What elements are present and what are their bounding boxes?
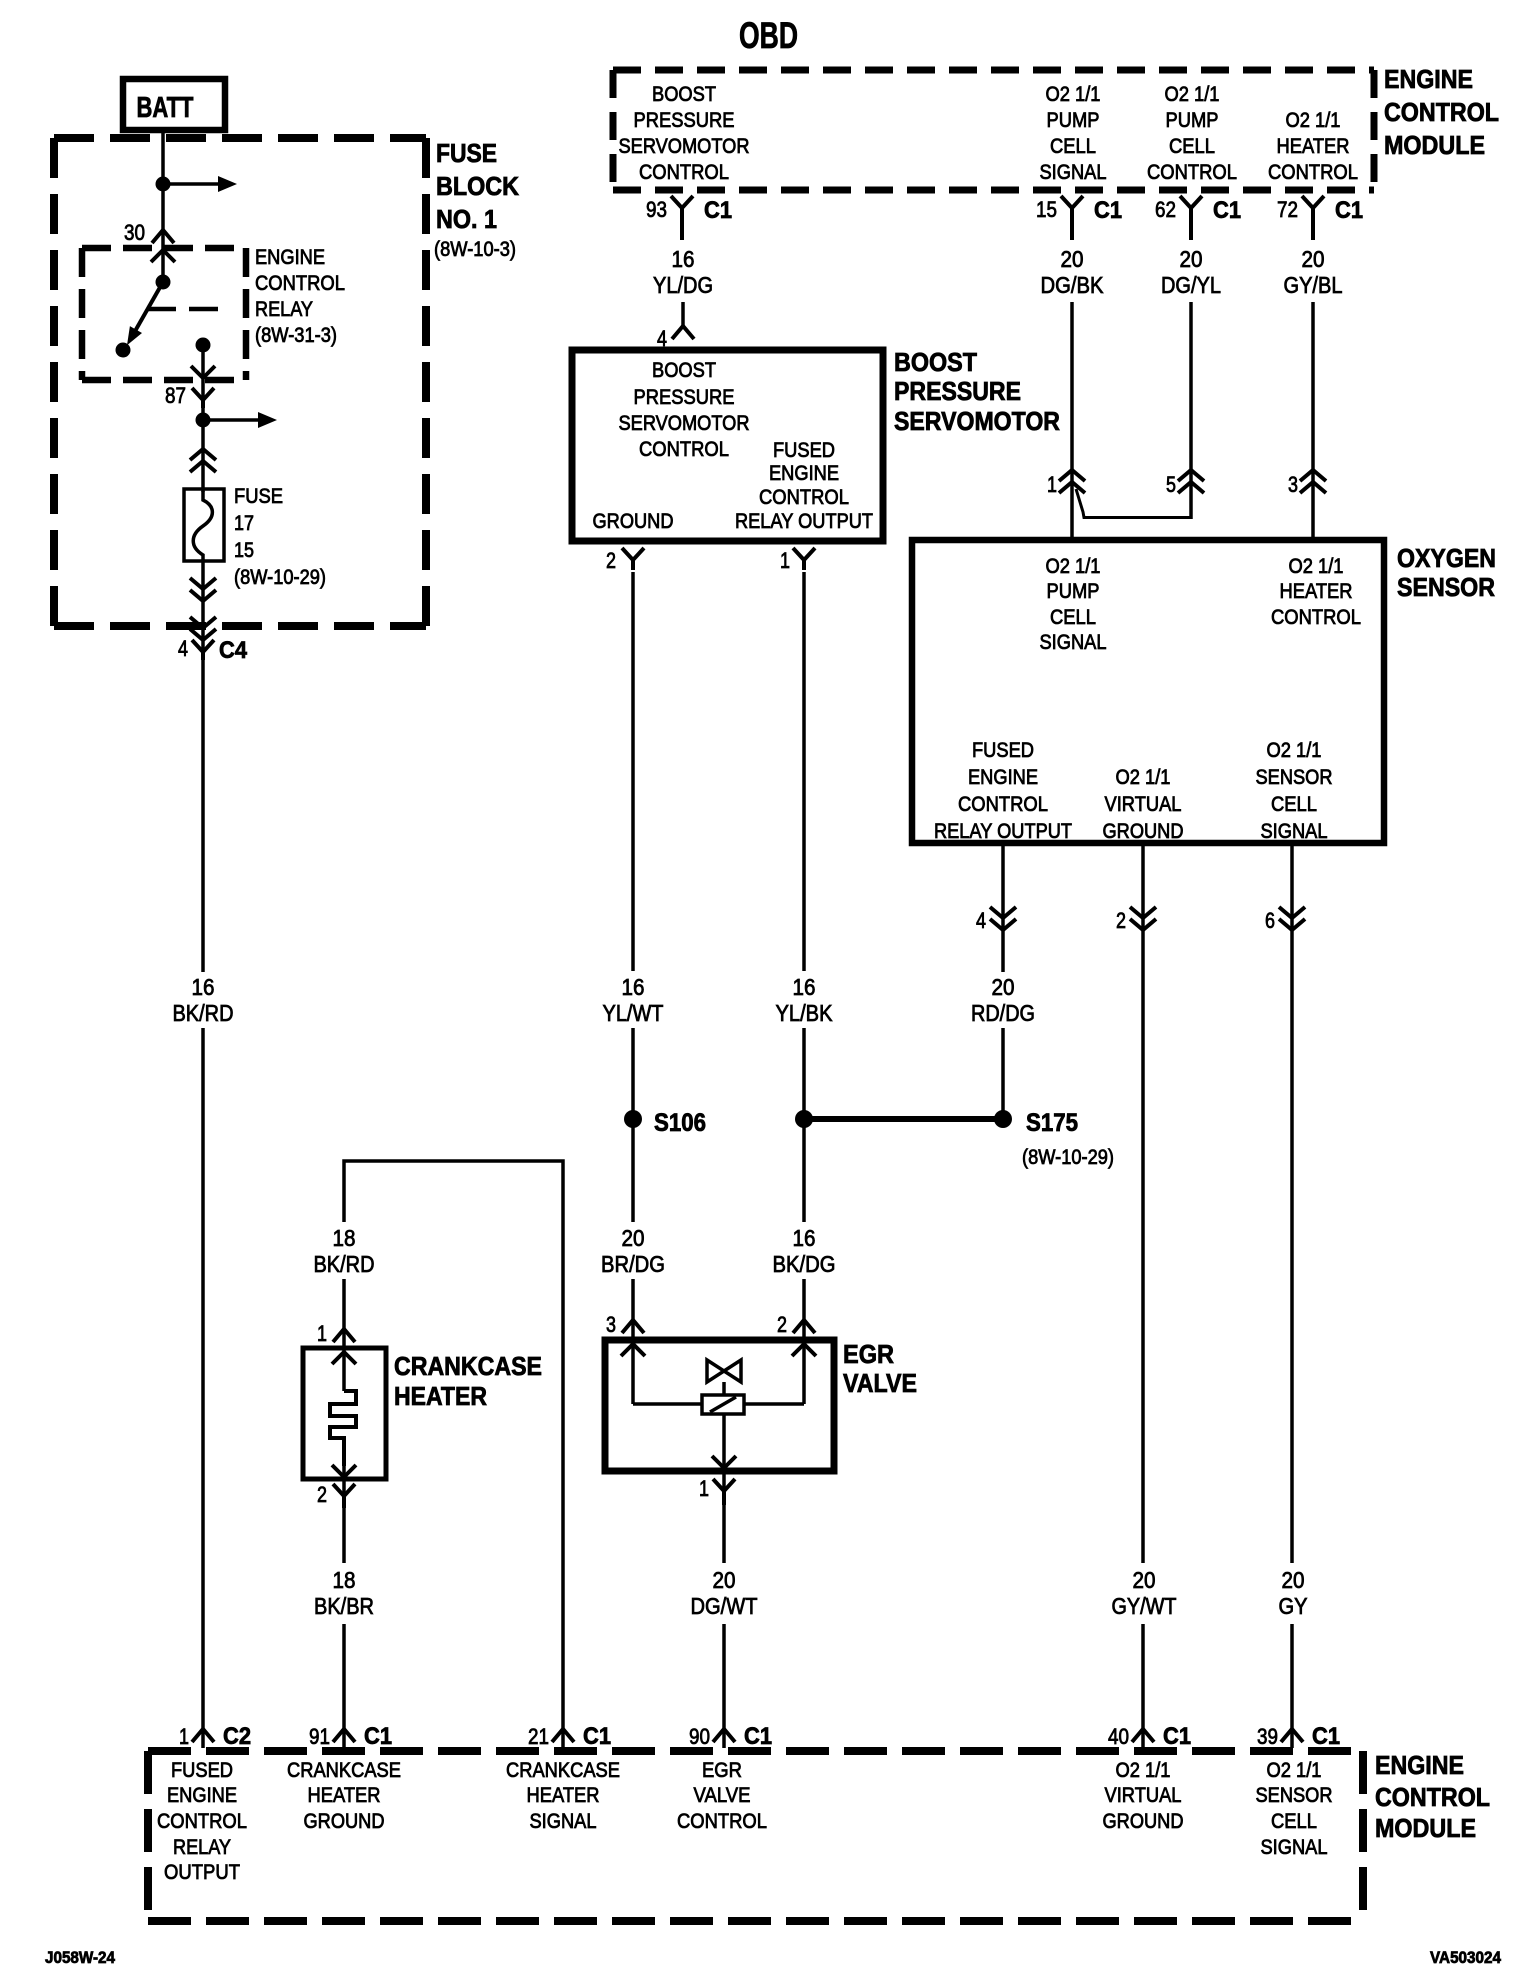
svg-text:S106: S106 xyxy=(654,1109,706,1137)
svg-text:BOOST: BOOST xyxy=(652,359,716,382)
connector pin 91 C1 at ECM xyxy=(333,1729,355,1742)
splice S175 xyxy=(994,1109,1114,1169)
connector pin 3 EGR xyxy=(606,1312,644,1337)
connector pin 72 C1 xyxy=(1277,196,1363,240)
svg-text:2: 2 xyxy=(606,548,616,573)
svg-text:ENGINE: ENGINE xyxy=(1375,1750,1464,1780)
svg-text:MODULE: MODULE xyxy=(1375,1813,1476,1843)
svg-text:BK/DG: BK/DG xyxy=(773,1251,836,1277)
svg-text:SIGNAL: SIGNAL xyxy=(530,1810,597,1833)
svg-text:16: 16 xyxy=(793,974,816,1000)
svg-text:CELL: CELL xyxy=(1271,1810,1317,1833)
svg-text:20: 20 xyxy=(622,1225,645,1251)
wire fuse to C4 xyxy=(201,561,205,652)
svg-text:DG/YL: DG/YL xyxy=(1161,272,1221,298)
svg-text:SIGNAL: SIGNAL xyxy=(1261,820,1328,843)
connector pin 1 EGR xyxy=(699,1476,735,1505)
EGR internal wiring xyxy=(633,1402,804,1406)
svg-text:HEATER: HEATER xyxy=(527,1784,600,1807)
svg-text:20: 20 xyxy=(1282,1567,1305,1593)
svg-text:BOOST: BOOST xyxy=(894,347,977,377)
svg-text:RELAY OUTPUT: RELAY OUTPUT xyxy=(735,510,873,533)
svg-text:5: 5 xyxy=(1166,472,1176,497)
svg-text:CONTROL: CONTROL xyxy=(1147,161,1237,184)
relay switch arm xyxy=(127,282,163,345)
svg-text:16: 16 xyxy=(192,974,215,1000)
svg-text:RELAY OUTPUT: RELAY OUTPUT xyxy=(934,820,1072,843)
EGR outlet wire xyxy=(722,1414,726,1468)
svg-text:GROUND: GROUND xyxy=(1103,820,1184,843)
svg-text:CONTROL: CONTROL xyxy=(677,1810,767,1833)
svg-text:CONTROL: CONTROL xyxy=(639,161,729,184)
svg-text:C1: C1 xyxy=(1163,1723,1191,1750)
connector pin 2 servo xyxy=(606,548,644,573)
heater exit barb xyxy=(332,1465,356,1480)
svg-text:RELAY: RELAY xyxy=(173,1836,231,1859)
O2 pin 1 connector xyxy=(1047,470,1085,497)
svg-text:(8W-31-3): (8W-31-3) xyxy=(255,324,337,347)
svg-text:1: 1 xyxy=(179,1724,189,1749)
wire BK/RD to heater pin 1 xyxy=(342,1279,346,1348)
svg-text:CONTROL: CONTROL xyxy=(958,793,1048,816)
svg-text:62: 62 xyxy=(1155,197,1176,222)
label OXYGEN SENSOR (title) xyxy=(1397,543,1496,602)
wire BATT to junction xyxy=(161,130,165,184)
svg-text:GROUND: GROUND xyxy=(304,1810,385,1833)
svg-text:OBD: OBD xyxy=(739,15,798,56)
O2 pin 6 connector xyxy=(1265,907,1305,933)
svg-text:BR/DG: BR/DG xyxy=(601,1251,665,1277)
svg-text:O2 1/1: O2 1/1 xyxy=(1165,83,1220,106)
ECM input crankcase heater ground xyxy=(287,1759,401,1833)
fuse output connector xyxy=(190,578,216,601)
svg-text:SERVOMOTOR: SERVOMOTOR xyxy=(619,135,750,158)
connector pin 2 heater xyxy=(317,1482,355,1508)
svg-text:4: 4 xyxy=(976,908,986,933)
svg-text:BOOST: BOOST xyxy=(652,83,716,106)
ECM input O2 sensor cell signal xyxy=(1256,1759,1333,1859)
svg-text:MODULE: MODULE xyxy=(1384,130,1485,160)
wire DG/BK down xyxy=(1070,302,1074,540)
svg-text:1: 1 xyxy=(317,1321,327,1346)
relay contact dot xyxy=(116,343,131,358)
svg-text:PRESSURE: PRESSURE xyxy=(894,376,1021,406)
svg-text:GROUND: GROUND xyxy=(593,510,674,533)
svg-text:3: 3 xyxy=(606,1312,616,1337)
svg-text:ENGINE: ENGINE xyxy=(1384,64,1473,94)
svg-text:(8W-10-3): (8W-10-3) xyxy=(434,238,516,261)
svg-text:O2 1/1: O2 1/1 xyxy=(1267,739,1322,762)
svg-text:C1: C1 xyxy=(1335,197,1363,224)
splice S106 xyxy=(624,1109,706,1137)
svg-text:FUSED: FUSED xyxy=(171,1759,233,1782)
svg-text:FUSE: FUSE xyxy=(436,138,497,168)
fuse element xyxy=(193,491,212,561)
svg-text:CELL: CELL xyxy=(1050,135,1096,158)
svg-text:87: 87 xyxy=(165,383,186,408)
svg-text:16: 16 xyxy=(622,974,645,1000)
svg-text:6: 6 xyxy=(1265,908,1275,933)
connector pin 21 C1 at ECM xyxy=(552,1729,574,1742)
wire label 18 BK/RD xyxy=(314,1225,375,1277)
svg-text:BK/BR: BK/BR xyxy=(314,1593,374,1619)
svg-text:ENGINE: ENGINE xyxy=(968,766,1038,789)
node junction below 87 xyxy=(196,413,211,428)
svg-text:PRESSURE: PRESSURE xyxy=(634,109,735,132)
svg-text:C1: C1 xyxy=(364,1723,392,1750)
svg-text:OXYGEN: OXYGEN xyxy=(1397,543,1496,573)
crankcase heater box xyxy=(303,1348,386,1479)
svg-text:DG/BK: DG/BK xyxy=(1041,272,1105,298)
ECM output O2 1/1 PUMP CELL SIGNAL xyxy=(1040,83,1107,184)
svg-text:30: 30 xyxy=(124,220,145,245)
relay pin 87 dot xyxy=(196,338,211,353)
svg-text:HEATER: HEATER xyxy=(308,1784,381,1807)
arrow feed right xyxy=(203,412,277,428)
wire DG/YL down xyxy=(1189,302,1193,519)
ECM output O2 1/1 PUMP CELL CONTROL xyxy=(1147,83,1237,184)
svg-text:O2 1/1: O2 1/1 xyxy=(1267,1759,1322,1782)
splice link to S175 xyxy=(804,1116,1003,1122)
svg-text:S175: S175 xyxy=(1026,1109,1078,1137)
svg-text:SIGNAL: SIGNAL xyxy=(1040,631,1107,654)
wire C4 down xyxy=(201,652,205,972)
svg-text:C1: C1 xyxy=(744,1723,772,1750)
svg-text:FUSE: FUSE xyxy=(234,485,283,508)
svg-text:3: 3 xyxy=(1288,472,1298,497)
svg-text:CRANKCASE: CRANKCASE xyxy=(394,1351,542,1381)
svg-text:20: 20 xyxy=(1180,246,1203,272)
wire jog pump cell control to pin 1 xyxy=(1076,489,1191,518)
svg-text:BK/RD: BK/RD xyxy=(173,1000,234,1026)
ECM input fused engine control relay output xyxy=(157,1759,247,1884)
svg-text:J058W-24: J058W-24 xyxy=(45,1948,115,1967)
wire label 20 BR/DG xyxy=(601,1225,665,1277)
svg-text:GY/WT: GY/WT xyxy=(1112,1593,1177,1619)
wire servo relay output down xyxy=(802,572,806,971)
relay pin 30 entry barb xyxy=(151,250,175,262)
label OBD xyxy=(739,15,798,56)
wire label 20 GY/BL xyxy=(1284,246,1343,298)
svg-text:(8W-10-29): (8W-10-29) xyxy=(234,566,326,589)
connector pin 15 C1 xyxy=(1036,196,1122,240)
fuse input connector xyxy=(190,449,216,472)
svg-text:GROUND: GROUND xyxy=(1103,1810,1184,1833)
svg-text:SENSOR: SENSOR xyxy=(1397,572,1495,602)
wire GY to ECM xyxy=(1290,1624,1294,1748)
connector pin 93 C1 xyxy=(646,196,732,240)
connector pin 1 C2 at ECM xyxy=(192,1729,214,1742)
wire S106 down xyxy=(631,1127,635,1222)
svg-text:PUMP: PUMP xyxy=(1047,580,1100,603)
O2 pin label heater control xyxy=(1271,555,1361,629)
wire label 20 DG/BK xyxy=(1041,246,1105,298)
svg-text:15: 15 xyxy=(234,539,254,562)
svg-text:VIRTUAL: VIRTUAL xyxy=(1105,1784,1182,1807)
svg-text:91: 91 xyxy=(309,1724,330,1749)
svg-text:20: 20 xyxy=(1133,1567,1156,1593)
label ENGINE CONTROL MODULE (bottom right) xyxy=(1375,1750,1490,1843)
EGR butterfly valve xyxy=(707,1360,741,1395)
label FUSE BLOCK NO. 1 xyxy=(434,138,519,261)
svg-text:CELL: CELL xyxy=(1050,606,1096,629)
wire YL/WT to S106 xyxy=(631,1028,635,1112)
svg-text:GY/BL: GY/BL xyxy=(1284,272,1343,298)
EGR valve box xyxy=(605,1340,834,1471)
label FUSE 17 15 xyxy=(234,485,326,589)
label CRANKCASE HEATER (title) xyxy=(394,1351,542,1411)
svg-text:SENSOR: SENSOR xyxy=(1256,1784,1333,1807)
pin 30 label xyxy=(124,220,145,245)
svg-text:17: 17 xyxy=(234,512,254,535)
svg-text:CONTROL: CONTROL xyxy=(759,486,849,509)
O2 pin 3 connector xyxy=(1288,470,1326,497)
EGR pin3 entry barb xyxy=(621,1341,645,1404)
svg-text:1: 1 xyxy=(699,1476,709,1501)
wire servo ground down xyxy=(631,572,635,971)
wire junction to relay pin 30 xyxy=(161,184,165,282)
svg-text:EGR: EGR xyxy=(702,1759,742,1782)
svg-text:C1: C1 xyxy=(583,1723,611,1750)
svg-text:OUTPUT: OUTPUT xyxy=(164,1861,240,1884)
wire O2 pin 6 down xyxy=(1290,843,1294,1563)
engine control relay dashed box xyxy=(82,248,246,380)
ECM output O2 1/1 HEATER CONTROL xyxy=(1268,109,1358,184)
svg-text:GY: GY xyxy=(1279,1593,1308,1619)
svg-text:RD/DG: RD/DG xyxy=(971,1000,1035,1026)
svg-text:CRANKCASE: CRANKCASE xyxy=(506,1759,620,1782)
fuse 17 box xyxy=(184,489,224,561)
svg-text:2: 2 xyxy=(777,1312,787,1337)
bottom connector labels row xyxy=(179,1723,1340,1750)
svg-text:O2 1/1: O2 1/1 xyxy=(1116,1759,1171,1782)
svg-text:PUMP: PUMP xyxy=(1047,109,1100,132)
wire label 16 YL/BK xyxy=(776,974,834,1026)
label BOOST PRESSURE SERVOMOTOR (title) xyxy=(894,347,1060,436)
svg-text:YL/WT: YL/WT xyxy=(603,1000,664,1026)
engine control module dashed box (bottom) xyxy=(148,1751,1363,1921)
engine control module dashed box (top) xyxy=(613,70,1374,190)
svg-text:C4: C4 xyxy=(219,637,248,664)
connector pin 30 xyxy=(152,230,174,243)
heater element xyxy=(330,1391,356,1466)
svg-text:CONTROL: CONTROL xyxy=(1384,97,1499,127)
svg-text:90: 90 xyxy=(689,1724,710,1749)
svg-text:CONTROL: CONTROL xyxy=(255,272,345,295)
svg-text:HEATER: HEATER xyxy=(1277,135,1350,158)
svg-text:YL/DG: YL/DG xyxy=(653,272,713,298)
oxygen sensor box xyxy=(912,540,1384,843)
ECM input egr valve control xyxy=(677,1759,767,1833)
svg-text:CONTROL: CONTROL xyxy=(1271,606,1361,629)
connector pin 62 C1 xyxy=(1155,196,1241,240)
servo pin label fused engine control relay output xyxy=(735,439,873,533)
ECM output BOOST PRESSURE SERVOMOTOR CONTROL xyxy=(619,83,750,184)
svg-text:21: 21 xyxy=(528,1724,549,1749)
svg-text:20: 20 xyxy=(1302,246,1325,272)
svg-text:18: 18 xyxy=(333,1225,356,1251)
relay actuation dashed line xyxy=(147,307,221,312)
EGR solenoid xyxy=(702,1395,744,1414)
svg-text:16: 16 xyxy=(672,246,695,272)
svg-text:VALVE: VALVE xyxy=(843,1368,917,1398)
wire BR/DG to EGR pin 3 xyxy=(631,1279,635,1341)
svg-text:16: 16 xyxy=(793,1225,816,1251)
svg-text:C1: C1 xyxy=(1312,1723,1340,1750)
wire YL/DG to servo pin 4 xyxy=(681,302,685,326)
O2 pin label sensor cell signal xyxy=(1256,739,1333,843)
svg-text:ENGINE: ENGINE xyxy=(167,1784,237,1807)
wire label 20 GY xyxy=(1279,1567,1308,1619)
wire YL/BK to junction xyxy=(802,1028,806,1112)
wire GY/BL down xyxy=(1311,302,1315,540)
svg-text:CONTROL: CONTROL xyxy=(1375,1782,1490,1812)
svg-text:O2 1/1: O2 1/1 xyxy=(1116,766,1171,789)
svg-text:15: 15 xyxy=(1036,197,1057,222)
svg-text:PUMP: PUMP xyxy=(1166,109,1219,132)
node junction on BATT feed xyxy=(156,177,171,192)
svg-text:RELAY: RELAY xyxy=(255,298,313,321)
sheet code J058W-24 xyxy=(45,1948,115,1967)
svg-text:ENGINE: ENGINE xyxy=(255,246,325,269)
wire O2 pin 2 down xyxy=(1141,843,1145,1563)
wire RD/DG to S175 xyxy=(1001,1028,1005,1112)
svg-text:HEATER: HEATER xyxy=(394,1381,487,1411)
connector pin 39 C1 at ECM xyxy=(1281,1729,1303,1742)
svg-text:1: 1 xyxy=(1047,472,1057,497)
svg-text:FUSED: FUSED xyxy=(972,739,1034,762)
svg-text:O2 1/1: O2 1/1 xyxy=(1289,555,1344,578)
wire relay 87 to box edge xyxy=(201,345,205,420)
connector pin 90 C1 at ECM xyxy=(713,1729,735,1742)
connector pin 1 heater xyxy=(317,1321,355,1346)
connector pin 1 servo xyxy=(780,548,815,573)
wire junction to fuse xyxy=(201,420,205,492)
wire label 20 DG/YL xyxy=(1161,246,1221,298)
arrow feed to other circuits xyxy=(163,176,237,192)
wire DG/WT to ECM xyxy=(722,1624,726,1748)
connector 4 C4 xyxy=(178,636,248,664)
wire label 20 RD/DG xyxy=(971,974,1035,1026)
wire label 16 YL/DG xyxy=(653,246,713,298)
svg-text:VA503024: VA503024 xyxy=(1430,1948,1501,1967)
wire EGR pin1 down xyxy=(722,1468,726,1563)
wire junction down xyxy=(802,1127,806,1222)
wire label 16 BK/DG xyxy=(773,1225,836,1277)
svg-text:2: 2 xyxy=(1116,908,1126,933)
O2 pin 4 connector xyxy=(976,907,1016,933)
wire BK/BR to ECM xyxy=(342,1624,346,1748)
svg-text:CONTROL: CONTROL xyxy=(1268,161,1358,184)
svg-text:93: 93 xyxy=(646,197,667,222)
svg-text:(8W-10-29): (8W-10-29) xyxy=(1022,1146,1114,1169)
svg-text:CELL: CELL xyxy=(1271,793,1317,816)
connector C4 exit chevrons xyxy=(190,617,216,640)
EGR exit barb xyxy=(712,1456,736,1468)
svg-text:BK/RD: BK/RD xyxy=(314,1251,375,1277)
svg-text:SENSOR: SENSOR xyxy=(1256,766,1333,789)
svg-text:CELL: CELL xyxy=(1169,135,1215,158)
svg-text:C1: C1 xyxy=(1213,197,1241,224)
connector pin 4 servo xyxy=(657,326,694,351)
svg-text:DG/WT: DG/WT xyxy=(691,1593,758,1619)
svg-text:PRESSURE: PRESSURE xyxy=(634,386,735,409)
EGR pin2 entry barb xyxy=(792,1341,816,1404)
sheet code VA503024 xyxy=(1430,1948,1501,1967)
svg-text:NO. 1: NO. 1 xyxy=(436,204,497,234)
wire label 20 DG/WT xyxy=(691,1567,758,1619)
wire label 16 BK/RD xyxy=(173,974,234,1026)
svg-text:18: 18 xyxy=(333,1567,356,1593)
svg-text:FUSED: FUSED xyxy=(773,439,835,462)
wire BK/DG to EGR pin 2 xyxy=(802,1279,806,1341)
svg-text:YL/BK: YL/BK xyxy=(776,1000,834,1026)
svg-text:SERVOMOTOR: SERVOMOTOR xyxy=(619,412,750,435)
svg-text:VALVE: VALVE xyxy=(694,1784,751,1807)
svg-text:CONTROL: CONTROL xyxy=(157,1810,247,1833)
wire heater pin2 down xyxy=(342,1480,346,1563)
heater entry barb xyxy=(332,1346,356,1391)
svg-text:20: 20 xyxy=(1061,246,1084,272)
connector pin 2 EGR xyxy=(777,1312,815,1337)
svg-text:SIGNAL: SIGNAL xyxy=(1040,161,1107,184)
wire O2 pin 4 down xyxy=(1001,843,1005,972)
svg-text:CRANKCASE: CRANKCASE xyxy=(287,1759,401,1782)
O2 pin label pump cell signal xyxy=(1040,555,1107,654)
svg-text:72: 72 xyxy=(1277,197,1298,222)
battery feed box BATT xyxy=(123,79,225,130)
svg-text:C1: C1 xyxy=(1094,197,1122,224)
node junction on YL/BK xyxy=(795,1110,813,1128)
ECM input O2 virtual ground xyxy=(1103,1759,1184,1833)
wire BK/RD down to ECM xyxy=(201,1028,205,1748)
label ENGINE CONTROL RELAY xyxy=(255,246,345,347)
svg-text:O2 1/1: O2 1/1 xyxy=(1286,109,1341,132)
O2 pin 5 connector xyxy=(1166,470,1204,497)
svg-text:2: 2 xyxy=(317,1482,327,1507)
O2 pin label virtual ground xyxy=(1103,766,1184,843)
wire crankcase heater signal horizontal xyxy=(344,1161,563,1748)
svg-text:O2 1/1: O2 1/1 xyxy=(1046,83,1101,106)
wire label 20 GY/WT xyxy=(1112,1567,1177,1619)
svg-text:EGR: EGR xyxy=(843,1339,894,1369)
ECM input crankcase heater signal xyxy=(506,1759,620,1833)
relay common dot xyxy=(156,275,171,290)
svg-text:1: 1 xyxy=(780,548,790,573)
svg-text:20: 20 xyxy=(713,1567,736,1593)
wire GY/WT to ECM xyxy=(1141,1624,1145,1748)
svg-text:BATT: BATT xyxy=(137,92,194,124)
svg-text:SERVOMOTOR: SERVOMOTOR xyxy=(894,406,1060,436)
svg-text:40: 40 xyxy=(1108,1724,1129,1749)
svg-text:20: 20 xyxy=(992,974,1015,1000)
relay pin 87 exit barb xyxy=(191,366,215,378)
svg-text:C2: C2 xyxy=(223,1723,251,1750)
svg-text:ENGINE: ENGINE xyxy=(769,462,839,485)
svg-text:BLOCK: BLOCK xyxy=(436,171,519,201)
O2 pin 2 connector xyxy=(1116,907,1156,933)
label ENGINE CONTROL MODULE (top right) xyxy=(1384,64,1499,160)
connector pin 40 C1 at ECM xyxy=(1132,1729,1154,1742)
servo pin label control xyxy=(619,359,750,461)
svg-text:SIGNAL: SIGNAL xyxy=(1261,1836,1328,1859)
wire label 18 BK/BR xyxy=(314,1567,374,1619)
servo pin label ground xyxy=(593,510,674,533)
svg-text:O2 1/1: O2 1/1 xyxy=(1046,555,1101,578)
svg-text:CONTROL: CONTROL xyxy=(639,438,729,461)
svg-text:HEATER: HEATER xyxy=(1280,580,1353,603)
svg-text:39: 39 xyxy=(1257,1724,1278,1749)
